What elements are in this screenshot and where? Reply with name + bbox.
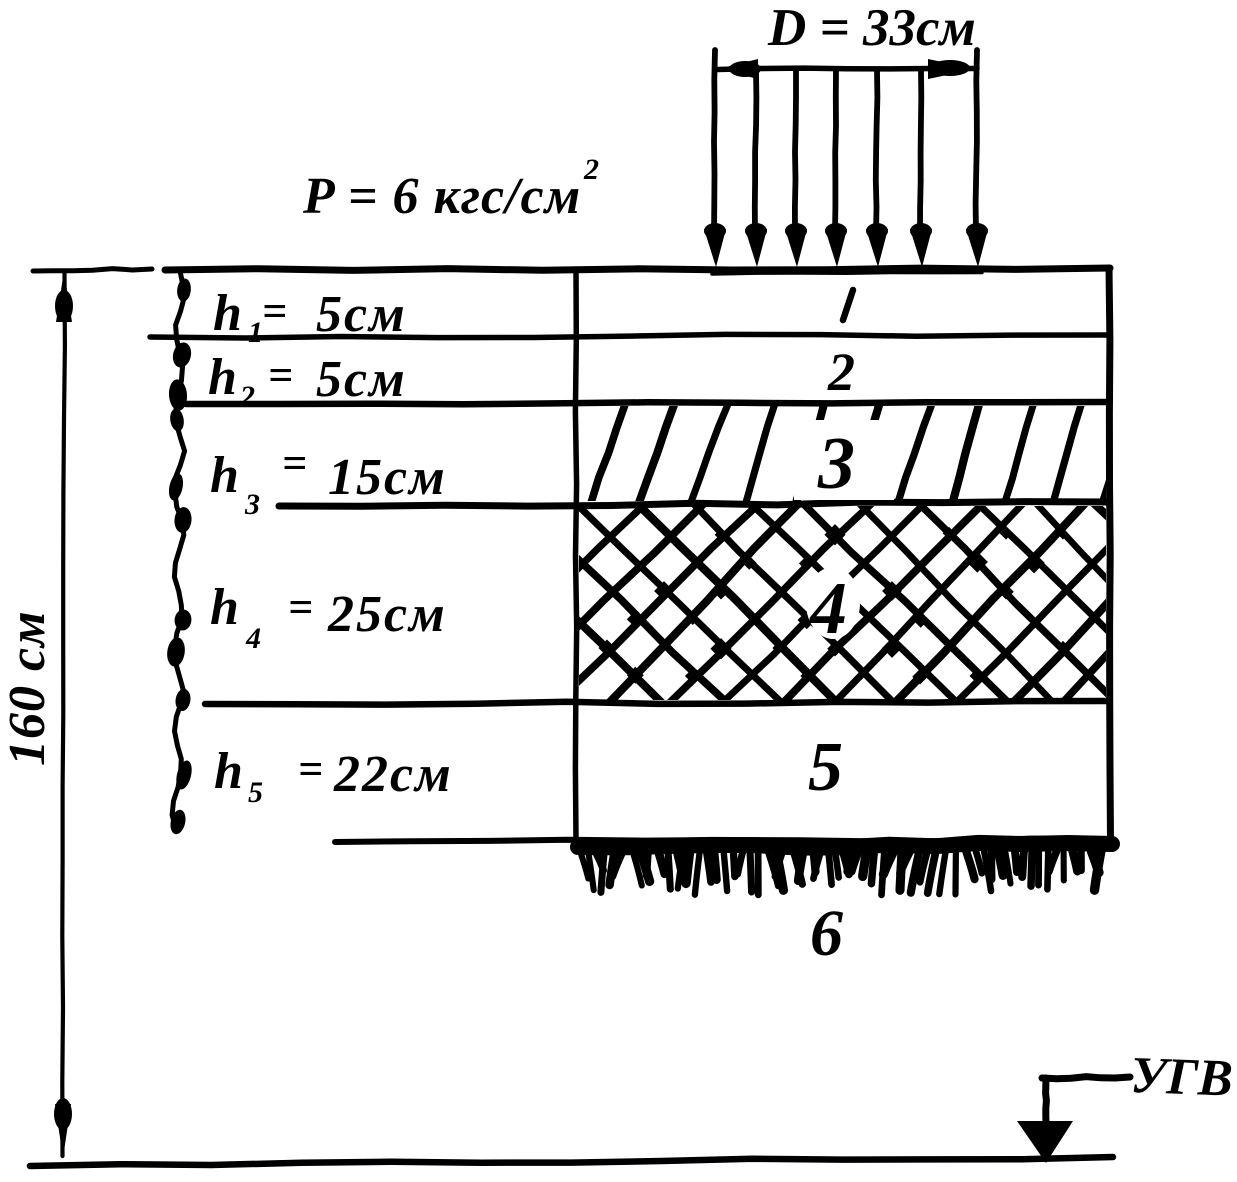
surface double stroke under load [712,273,982,275]
svg-text:5: 5 [808,729,843,806]
surface stub left [33,269,152,271]
structure right edge [1109,268,1111,841]
load arrow 5 [866,71,888,267]
thickness label h3 [210,439,447,521]
svg-text:h: h [208,349,237,406]
svg-text:=: = [262,287,287,336]
svg-text:h: h [210,447,239,504]
svg-text:2: 2 [583,153,599,186]
thickness label h4 [210,579,447,655]
svg-text:3: 3 [244,488,260,521]
load arrow 2 [745,71,767,267]
svg-text:2: 2 [239,380,255,413]
svg-text:УГВ: УГВ [1130,1047,1234,1108]
load arrow 7 [966,50,988,267]
svg-text:1: 1 [248,316,263,349]
wavy break line [165,269,194,836]
load arrow 3 [785,71,807,267]
svg-text:D = 33см: D = 33см [767,0,976,57]
structure left edge [575,269,576,841]
svg-text:15см: 15см [328,449,447,506]
subgrade hachure band [578,843,1112,895]
svg-text:5см: 5см [316,286,407,343]
boundary below layer 3 [279,502,1109,507]
thickness label h5 [214,743,453,809]
thickness label h1 [213,285,407,349]
svg-text:5: 5 [248,776,263,809]
groundwater triangle symbol [1017,1121,1073,1163]
svg-text:22см: 22см [333,746,453,803]
svg-text:h: h [210,579,239,636]
ground base line [30,1157,1113,1166]
load arrow 4 [825,71,847,267]
svg-text:=: = [282,439,307,488]
svg-text:h: h [213,285,242,342]
left dimension line 160 cm [54,271,73,1158]
dimension line D [717,59,977,79]
groundwater leader line [1042,1077,1130,1124]
svg-text:25см: 25см [327,586,447,643]
load arrow 1 [704,50,726,267]
load arrow 6 [910,71,932,267]
svg-text:4: 4 [245,622,261,655]
svg-text:5см: 5см [316,351,407,408]
svg-text:=: = [268,351,293,400]
boundary below layer 4 [205,701,1109,705]
top surface line [165,268,1110,270]
svg-text:=: = [298,745,323,794]
bottom of structure [335,839,1109,842]
svg-text:P = 6 кгс/см: P = 6 кгс/см [302,168,581,225]
svg-text:160 см: 160 см [0,610,56,766]
boundary below layer 1 [150,334,1109,338]
svg-text:4: 4 [808,568,847,650]
svg-text:=: = [288,583,313,632]
svg-text:h: h [214,743,243,800]
svg-text:6: 6 [810,897,843,970]
thickness label h2 [208,349,407,413]
svg-text:2: 2 [827,342,855,402]
layer label 1 [843,290,853,320]
boundary below layer 2 [186,402,1109,404]
pressure label P = 6 kgf/cm2 [302,153,599,225]
svg-text:3: 3 [817,423,855,505]
